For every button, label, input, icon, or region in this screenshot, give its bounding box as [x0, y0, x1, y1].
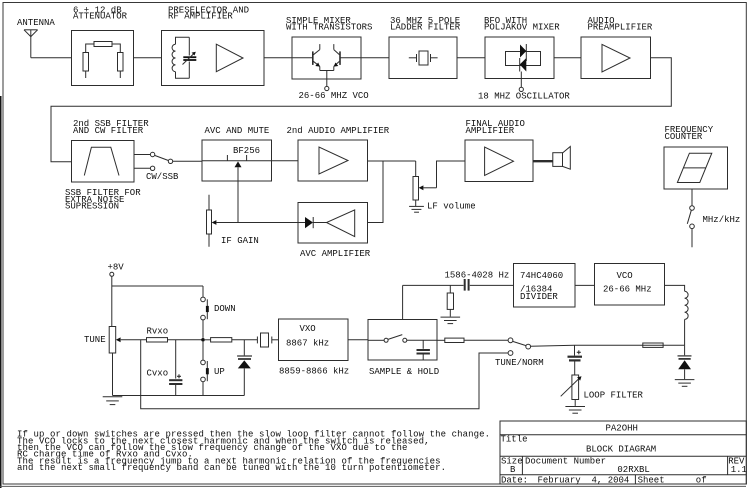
- wire preamp output feedback to 2nd row: [51, 58, 671, 162]
- wire coil to line: [684, 319, 686, 345]
- potentiometer TUNE: [109, 327, 146, 396]
- wire sample pulse from divider: [402, 285, 404, 319]
- block: 2nd audio amplifier: [298, 140, 368, 181]
- svg-text:PA2OHH: PA2OHH: [606, 423, 638, 433]
- wire AVC to 2nd audio amplifier: [272, 160, 299, 162]
- svg-text:AND CW FILTER: AND CW FILTER: [73, 126, 144, 136]
- block: 36 MHz 5 pole ladder filter: [389, 37, 457, 79]
- diode D4 (varicap at VCO): [678, 345, 692, 379]
- svg-text:Cvxo: Cvxo: [147, 368, 169, 378]
- resistor R9 (divider load): [447, 285, 453, 316]
- wire counter to switch: [691, 189, 693, 206]
- svg-text:26-66 MHZ VCO: 26-66 MHZ VCO: [299, 91, 369, 101]
- capacitor C5 (loop filter, polarized): [568, 345, 583, 375]
- svg-text:AVC AND MUTE: AVC AND MUTE: [205, 126, 270, 136]
- resistor R8 (VCO line): [643, 343, 663, 347]
- wire junction to resistor: [205, 339, 211, 341]
- wire divider to VCO: [575, 284, 595, 286]
- wire amp output to LF volume: [368, 160, 416, 162]
- svg-text:8867 kHz: 8867 kHz: [286, 338, 329, 348]
- wire amp to speaker: [533, 160, 553, 162]
- svg-text:Sheet: Sheet: [638, 476, 665, 486]
- wire mute lead down: [237, 167, 239, 222]
- potentiometer IF GAIN: [207, 195, 217, 247]
- resistor R5 (after junction): [211, 338, 232, 342]
- switch (sampling): [368, 335, 437, 343]
- resistor Rvxo: [147, 338, 168, 342]
- block: preselector and RF amplifier: [162, 31, 265, 86]
- wire switch to VCO line: [531, 344, 575, 347]
- resistor R2 (left shunt): [83, 53, 89, 72]
- transistor Q1 (left): [292, 44, 320, 70]
- diode D2 (lower, antiparallel): [520, 58, 527, 72]
- wire +8V rail: [111, 276, 113, 326]
- transistor Q2 (right): [334, 44, 361, 70]
- ground (TUNE pot): [103, 397, 123, 405]
- svg-text:1.1: 1.1: [731, 465, 747, 475]
- node LO input circle: [325, 86, 329, 90]
- wire BFO stem: [520, 72, 522, 88]
- transistor Q3 BF256 JFET: [202, 155, 272, 167]
- crystal X1: [409, 51, 438, 65]
- node +8V: [110, 272, 114, 276]
- node junction dot: [201, 338, 205, 342]
- block: AVC and mute: [202, 140, 272, 181]
- capacitor Cvxo (polarized): [169, 340, 182, 396]
- block: final audio amplifier: [465, 140, 533, 182]
- svg-text:BF256: BF256: [233, 146, 260, 156]
- ground (LF volume): [409, 206, 424, 212]
- op-amp U4 (AVC amp triangle, left pointing): [327, 210, 355, 237]
- svg-text:February 4, 2004: February 4, 2004: [538, 476, 630, 486]
- op-amp U3 (2nd audio amp triangle): [319, 147, 348, 174]
- potentiometer LF volume: [413, 161, 465, 206]
- diode D1 (upper): [520, 44, 526, 61]
- diode D5 (AVC detector): [298, 217, 327, 228]
- op-amp U1 (RF amplifier triangle): [216, 44, 243, 71]
- svg-text:LF volume: LF volume: [427, 202, 476, 212]
- ground (VCO varicap): [675, 380, 695, 387]
- display digit symbol: [677, 153, 711, 182]
- wire attenuator to preselector: [134, 57, 162, 59]
- svg-text:DIVIDER: DIVIDER: [520, 292, 558, 302]
- block: audio preamplifier: [581, 37, 651, 79]
- wire preselector to mixer: [264, 57, 292, 59]
- svg-text:AVC AMPLIFIER: AVC AMPLIFIER: [300, 249, 371, 259]
- svg-text:74HC4060: 74HC4060: [520, 271, 563, 281]
- svg-text:B: B: [510, 465, 516, 475]
- svg-text:+8V: +8V: [108, 263, 125, 273]
- wire mixer to ladder filter: [361, 57, 389, 59]
- ground (divider load): [441, 317, 461, 324]
- wire VCO output: [665, 285, 685, 291]
- svg-text:AMPLIFIER: AMPLIFIER: [466, 126, 515, 136]
- svg-text:TUNE: TUNE: [84, 335, 106, 345]
- wire Rvxo to junction: [168, 339, 204, 341]
- svg-text:1586-4028 Hz: 1586-4028 Hz: [445, 271, 510, 281]
- wire resistor to crystal: [232, 339, 258, 341]
- svg-text:UP: UP: [214, 367, 225, 377]
- block: frequency counter: [664, 147, 728, 189]
- block: VCO 26-66 MHz: [595, 264, 665, 306]
- capacitor C1 (variable, tank): [183, 37, 197, 78]
- svg-text:TUNE/NORM: TUNE/NORM: [495, 358, 544, 368]
- inductor L1 (tank coil): [172, 37, 189, 78]
- svg-text:WITH TRANSISTORS: WITH TRANSISTORS: [286, 23, 372, 33]
- svg-text:26-66 MHz: 26-66 MHz: [603, 284, 652, 294]
- capacitor C4 (hold): [417, 340, 430, 360]
- block: AVC amplifier: [298, 203, 368, 244]
- switch UP (pushbutton): [201, 342, 209, 396]
- wire AVC amp output to IF gain: [216, 222, 298, 224]
- svg-text:POLJAKOV MIXER: POLJAKOV MIXER: [484, 23, 560, 33]
- wire VXO to sample and hold: [348, 339, 368, 341]
- wire BFO to audio preamp: [554, 57, 581, 59]
- svg-text:Document Number: Document Number: [525, 456, 606, 466]
- wire mixer LO stem: [326, 71, 328, 87]
- wire switch to AVC: [173, 160, 202, 162]
- speaker LS1: [553, 147, 571, 170]
- capacitor C6 (coupling to divider): [403, 279, 514, 291]
- ground (loop filter): [565, 407, 585, 414]
- svg-text:and the next small frequency b: and the next small frequency band can be…: [17, 463, 446, 473]
- wire bottom rail: [113, 395, 245, 397]
- resistor R1 (series, horizontal): [94, 42, 112, 47]
- block: VXO 8867 kHz: [279, 319, 349, 361]
- svg-text:Date:: Date:: [501, 476, 528, 486]
- resistor R7 (loop filter trimmer): [561, 375, 582, 406]
- block: sample and hold: [368, 320, 437, 361]
- svg-text:8859-8866 kHz: 8859-8866 kHz: [279, 366, 349, 376]
- svg-text:LADDER FILTER: LADDER FILTER: [390, 23, 461, 33]
- svg-text:DOWN: DOWN: [214, 304, 236, 314]
- node oscillator circle: [519, 87, 523, 91]
- wire ladder filter to BFO: [457, 57, 485, 59]
- svg-text:COUNTER: COUNTER: [665, 132, 703, 142]
- block: simple mixer with transistors: [292, 37, 361, 79]
- resistor R6 (S+H output): [445, 338, 464, 342]
- svg-text:SUPRESSION: SUPRESSION: [65, 202, 119, 212]
- switch TUNE/NORM: [508, 338, 530, 356]
- filter response curve: [84, 147, 119, 175]
- wire antenna to attenuator: [31, 57, 72, 59]
- switch CW/SSB: [150, 152, 172, 170]
- wire filter outputs: [134, 154, 150, 156]
- svg-text:SAMPLE & HOLD: SAMPLE & HOLD: [369, 367, 439, 377]
- svg-text:ATTENUATOR: ATTENUATOR: [73, 12, 128, 22]
- svg-text:ANTENNA: ANTENNA: [17, 18, 55, 28]
- svg-text:BLOCK DIAGRAM: BLOCK DIAGRAM: [586, 445, 656, 455]
- svg-text:18 MHZ OSCILLATOR: 18 MHZ OSCILLATOR: [478, 92, 570, 102]
- wire attenuator internal: [86, 44, 121, 78]
- svg-text:2nd AUDIO AMPLIFIER: 2nd AUDIO AMPLIFIER: [287, 126, 390, 136]
- svg-text:IF GAIN: IF GAIN: [221, 236, 259, 246]
- wire emitter join: [320, 70, 334, 72]
- svg-text:LOOP FILTER: LOOP FILTER: [584, 391, 644, 401]
- svg-text:02RXBL: 02RXBL: [617, 465, 649, 475]
- block: 74HC4060 divider: [514, 264, 576, 308]
- note paragraph: [17, 430, 490, 474]
- switch DOWN (pushbutton): [201, 286, 209, 338]
- title block: [500, 421, 746, 484]
- wire diode loop: [506, 52, 541, 66]
- inductor L2: [685, 291, 689, 319]
- title block text: [501, 423, 747, 485]
- svg-text:CW/SSB: CW/SSB: [146, 172, 179, 182]
- resistor R3 (right shunt): [118, 53, 124, 72]
- wire tune line (long): [141, 340, 508, 409]
- op-amp U5 (final amp triangle): [485, 147, 514, 176]
- switch MHz/kHz: [687, 206, 694, 248]
- svg-text:Title: Title: [501, 435, 528, 445]
- svg-text:Rvxo: Rvxo: [147, 327, 169, 337]
- svg-text:VXO: VXO: [300, 324, 316, 334]
- antenna: [24, 30, 38, 58]
- block: 6+12 dB attenuator: [72, 31, 134, 86]
- svg-text:VCO: VCO: [617, 271, 633, 281]
- svg-text:RF AMPLIFIER: RF AMPLIFIER: [168, 12, 233, 22]
- diode D3 (varicap at VXO): [237, 340, 252, 396]
- svg-text:of: of: [696, 476, 707, 486]
- block: BFO with Poljakov mixer: [485, 37, 554, 79]
- svg-text:MHz/kHz: MHz/kHz: [703, 215, 741, 225]
- wire S+H to resistor to switch: [437, 339, 445, 341]
- wire branch to AVC amplifier: [368, 161, 384, 223]
- op-amp U2 (preamp triangle): [602, 44, 630, 72]
- crystal X2 (VXO input): [257, 333, 278, 347]
- block: 2nd SSB filter and CW filter: [72, 141, 135, 183]
- svg-text:PREAMPLIFIER: PREAMPLIFIER: [588, 23, 653, 33]
